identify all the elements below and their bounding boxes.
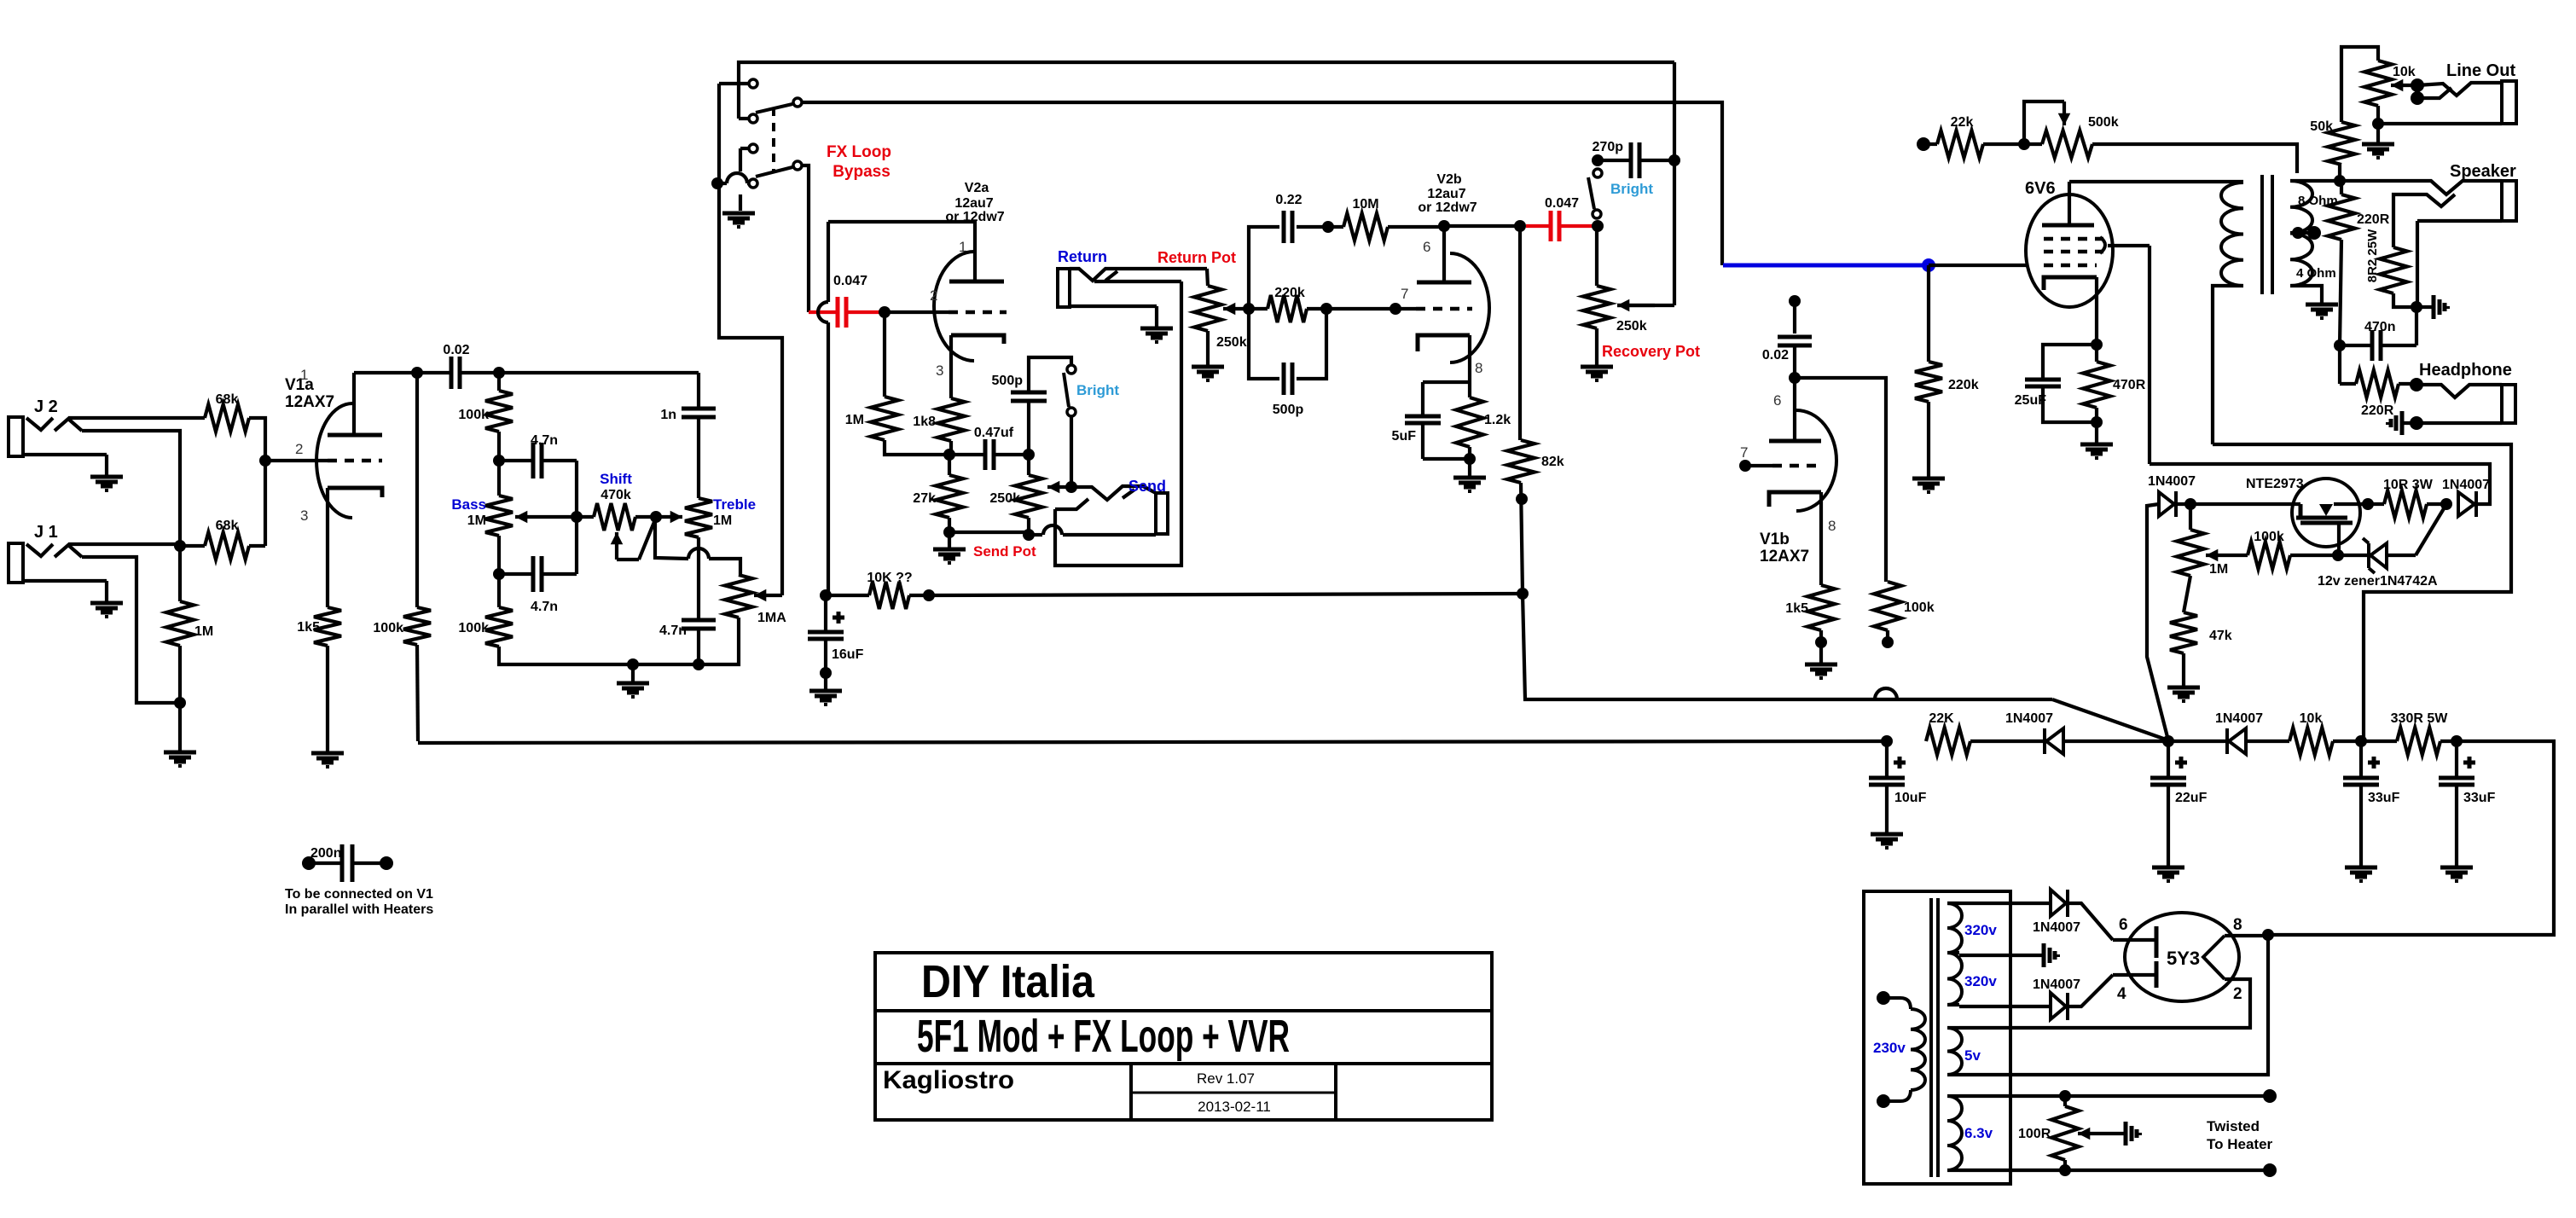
ground 33uF 1 bbox=[2345, 867, 2377, 881]
label 320v 1 bbox=[1964, 922, 1997, 938]
winding 6.3v bbox=[1947, 1096, 1962, 1170]
switch throw 1A bbox=[749, 79, 757, 88]
wire V1b plate feed bbox=[1793, 301, 1796, 333]
svg-text:10R 3W: 10R 3W bbox=[2383, 478, 2434, 492]
wire 27k leads bbox=[948, 455, 951, 532]
resistor 10M bbox=[1343, 213, 1388, 241]
capacitor 0.02 coupling bbox=[451, 357, 460, 389]
node V1b plate top bbox=[1789, 295, 1801, 307]
pin 1 label V1a bbox=[300, 367, 308, 383]
wire OT sec top bbox=[2290, 179, 2340, 183]
wire B+ to 5Y3 pin8 bbox=[2268, 741, 2554, 935]
title block box bbox=[875, 953, 1492, 1120]
node cathode V2a bbox=[943, 449, 955, 461]
PT core bbox=[1931, 898, 1938, 1177]
label pin 8 5Y3 bbox=[2233, 916, 2242, 934]
label 220k fx bbox=[1274, 286, 1305, 300]
wire diode to drain bbox=[2176, 502, 2190, 506]
wire bass leads bbox=[497, 461, 501, 574]
svg-text:320v: 320v bbox=[1964, 973, 1997, 989]
node send pot top bbox=[1023, 449, 1035, 461]
label recovery 250k bbox=[1616, 319, 1647, 333]
diode 1N4007 rect bottom bbox=[2051, 993, 2068, 1020]
resistor 220R headphone bbox=[2356, 370, 2399, 397]
label Line Out bbox=[2446, 61, 2515, 80]
resistor 1M input bbox=[166, 601, 194, 646]
capacitor 16uF bbox=[808, 632, 844, 639]
ground V1a cathode bbox=[311, 753, 344, 767]
ground 27k bbox=[933, 532, 966, 563]
label 68k lower bbox=[216, 519, 239, 533]
capacitor 33uF 2 bbox=[2439, 778, 2474, 785]
capacitor 0.47uf bbox=[985, 439, 994, 470]
winding 5v bbox=[1947, 1028, 1962, 1075]
switch throw 2D bbox=[749, 179, 757, 188]
ground speaker net bbox=[2416, 295, 2448, 319]
OT core bbox=[2262, 175, 2272, 294]
title Rev 1.07 bbox=[1197, 1070, 1255, 1087]
svg-text:220k: 220k bbox=[1274, 286, 1305, 300]
5Y3 filament bbox=[2203, 936, 2225, 979]
svg-text:1M: 1M bbox=[713, 513, 732, 528]
jack Headphone bbox=[2416, 385, 2515, 423]
node V1a plate bbox=[411, 367, 423, 379]
resistor 1.2k bbox=[1456, 397, 1483, 447]
capacitor 10uF bbox=[1869, 778, 1905, 785]
resistor 330R 5W bbox=[2397, 728, 2440, 755]
zener 12v 1N4742A bbox=[2363, 538, 2387, 573]
svg-text:Recovery Pot: Recovery Pot bbox=[1602, 343, 1700, 360]
wire grid 6V6 bbox=[1929, 264, 2028, 267]
svg-text:Bass: Bass bbox=[451, 496, 486, 513]
wire 220R hp leads bbox=[2340, 345, 2416, 384]
plus 33uF 2 bbox=[2463, 757, 2475, 768]
wire rail1 top bbox=[739, 62, 1674, 119]
capacitor 4.7n treble bbox=[682, 620, 716, 629]
recovery wiper arrow bbox=[1617, 299, 1655, 312]
svg-text:8: 8 bbox=[1828, 518, 1836, 534]
wire 220R speaker leads bbox=[2340, 181, 2343, 194]
svg-text:500k: 500k bbox=[2088, 115, 2119, 130]
resistor 100k VVR bbox=[2248, 542, 2290, 569]
ground 6V6 cathode bbox=[2080, 422, 2113, 458]
terminal 200n left bbox=[302, 856, 316, 870]
node lineout ring bbox=[2411, 91, 2424, 105]
node bright2 bottom bbox=[1592, 220, 1604, 232]
ground OT secondary bbox=[2306, 304, 2338, 318]
grid dashes V2b bbox=[1395, 307, 1472, 310]
cathode V2b bbox=[1418, 335, 1470, 382]
10k wiper arrow bbox=[2391, 79, 2417, 92]
grid dashes V1b bbox=[1745, 464, 1823, 467]
svg-text:Shift: Shift bbox=[600, 471, 632, 487]
wire 8R2 bottom bbox=[2393, 293, 2416, 307]
svg-text:FX Loop: FX Loop bbox=[827, 143, 891, 161]
svg-text:1N4007: 1N4007 bbox=[2033, 920, 2080, 935]
wire diode bottom to plate4 bbox=[2068, 975, 2113, 1006]
wire 82k to supply node bbox=[1521, 483, 1523, 594]
wire 1k5 to ground bbox=[326, 646, 329, 751]
label Headphone bbox=[2419, 361, 2512, 380]
cathode V1b bbox=[1769, 492, 1821, 585]
switch throw 2C bbox=[749, 144, 757, 153]
svg-text:0.02: 0.02 bbox=[443, 343, 469, 357]
label pin 6 5Y3 bbox=[2119, 916, 2128, 934]
label 12v zener1N4742A bbox=[2318, 574, 2438, 589]
capacitor 0.047 send (red) bbox=[809, 297, 885, 328]
wire heater bottom bbox=[1959, 1169, 2270, 1172]
label Recovery Pot bbox=[1602, 343, 1700, 360]
plus 33uF 1 bbox=[2368, 757, 2380, 768]
capacitor 270p bbox=[1631, 142, 1639, 178]
wire diode1 to 22uF node bbox=[2063, 739, 2168, 743]
resistor 1k5 V1a bbox=[314, 607, 341, 646]
title DIY Italia bbox=[921, 956, 1095, 1007]
svg-text:100k: 100k bbox=[458, 408, 489, 422]
label Bass bbox=[451, 496, 486, 513]
wire 1.2k leads bbox=[1468, 382, 1471, 459]
svg-text:Return: Return bbox=[1058, 248, 1107, 265]
svg-text:250k: 250k bbox=[1216, 335, 1247, 350]
svg-text:or 12dw7: or 12dw7 bbox=[945, 210, 1004, 224]
wire 50k bottom bbox=[2338, 165, 2341, 181]
svg-text:320v: 320v bbox=[1964, 922, 1997, 938]
label 33uF 2 bbox=[2463, 791, 2496, 805]
node 33uF 1 bbox=[2355, 735, 2367, 747]
100R wiper arrow bbox=[2078, 1128, 2126, 1140]
label 22K psu bbox=[1929, 711, 1954, 726]
node V2b grid bbox=[1390, 303, 1401, 315]
node 82k mid bbox=[1516, 493, 1528, 505]
svg-text:V2b: V2b bbox=[1436, 172, 1462, 187]
bass wiper arrow bbox=[515, 511, 577, 524]
resistor 22K psu bbox=[1926, 728, 1970, 755]
wire plate to 82k node bbox=[1444, 224, 1520, 228]
ground 22uF bbox=[2152, 867, 2184, 881]
resistor 100k V1b bbox=[1874, 582, 1901, 630]
svg-text:470n: 470n bbox=[2364, 320, 2395, 334]
wire V1b out right bbox=[1795, 378, 1886, 582]
svg-text:6: 6 bbox=[2119, 916, 2128, 934]
wire J2 lower contact bbox=[82, 431, 180, 546]
node 470n left bbox=[2334, 339, 2346, 351]
mosfet NTE2973 bbox=[2292, 478, 2368, 556]
jack Speaker bbox=[2340, 181, 2516, 221]
wire send gnd row bbox=[949, 531, 1029, 534]
wire 230v leads bbox=[1883, 998, 1911, 1101]
pot Send 250k bbox=[1015, 475, 1042, 518]
wire send pot leads bbox=[1027, 455, 1030, 535]
label 0.22 bbox=[1275, 193, 1302, 207]
wire speaker sleeve down bbox=[2416, 221, 2419, 307]
svg-text:1k8: 1k8 bbox=[913, 415, 936, 429]
svg-text:230v: 230v bbox=[1873, 1040, 1906, 1056]
node tone top bbox=[493, 367, 505, 379]
switch bright1 bottom bbox=[1067, 408, 1076, 416]
jack J2 label bbox=[34, 397, 58, 416]
wire diag to B+ bbox=[2052, 699, 2168, 740]
diode 1N4007 vvr left bbox=[2159, 491, 2176, 517]
wire 6V6 plate to OT bbox=[2069, 180, 2243, 183]
ground tone stack bbox=[617, 664, 649, 697]
label Return bbox=[1058, 248, 1107, 265]
node 5Y3 pin8 bbox=[2262, 929, 2274, 941]
svg-text:220R: 220R bbox=[2361, 403, 2394, 418]
label 5uF bbox=[1392, 429, 1417, 444]
label V1b bbox=[1760, 531, 1790, 548]
wire recovery top bbox=[1595, 226, 1598, 286]
svg-text:1.2k: 1.2k bbox=[1484, 413, 1511, 427]
svg-text:In parallel with Heaters: In parallel with Heaters bbox=[285, 902, 433, 917]
label 1N4007 vvr right bbox=[2442, 478, 2490, 492]
wire 1M leads bbox=[178, 546, 182, 703]
plate 6V6 bbox=[2042, 182, 2094, 225]
label 330R 5W bbox=[2391, 711, 2449, 726]
label Send bbox=[1128, 478, 1166, 495]
svg-text:3: 3 bbox=[300, 507, 308, 524]
lever switch 2 bbox=[756, 167, 792, 177]
svg-text:500p: 500p bbox=[1273, 403, 1304, 417]
wire 500p right bbox=[1297, 309, 1326, 379]
pin 6 label V1b bbox=[1773, 392, 1781, 409]
node bass bottom bbox=[493, 568, 505, 580]
wire 10k to 33uF node bbox=[2333, 739, 2361, 743]
wire recovery gnd bbox=[1595, 328, 1598, 365]
svg-text:or 12dw7: or 12dw7 bbox=[1418, 200, 1477, 215]
label 500p fx bbox=[1273, 403, 1304, 417]
wire 100k to bus bbox=[417, 645, 418, 741]
pot 1MA bbox=[725, 575, 752, 618]
wire 22k to 500k bbox=[1923, 142, 2042, 146]
wire pin8 to 5v bbox=[1959, 935, 2268, 1075]
node J1 tip bbox=[174, 540, 186, 552]
wire diode2 to 10k bbox=[2246, 739, 2289, 743]
svg-text:68k: 68k bbox=[216, 519, 239, 533]
svg-text:220k: 220k bbox=[1948, 378, 1979, 392]
wire 220k to grid node bbox=[1326, 307, 1395, 310]
svg-text:1k5: 1k5 bbox=[297, 620, 320, 635]
svg-text:5Y3: 5Y3 bbox=[2167, 948, 2200, 969]
svg-text:68k: 68k bbox=[216, 392, 239, 407]
svg-text:Bypass: Bypass bbox=[833, 163, 891, 181]
label Speaker bbox=[2450, 162, 2516, 181]
wire 270p to wiper bbox=[1617, 160, 1674, 305]
pot Treble 1M bbox=[685, 498, 712, 537]
svg-text:8R2 25W: 8R2 25W bbox=[2365, 229, 2380, 282]
node 10k gnd bbox=[2372, 118, 2384, 130]
resistor 10k psu bbox=[2289, 728, 2333, 755]
wire V1b cap to node bbox=[1793, 345, 1796, 378]
stub throw C bbox=[740, 148, 748, 211]
label 270p bbox=[1593, 140, 1624, 154]
svg-text:6.3v: 6.3v bbox=[1964, 1125, 1993, 1141]
node supply mid bbox=[1517, 588, 1529, 600]
label 82k bbox=[1541, 455, 1564, 469]
svg-text:5uF: 5uF bbox=[1392, 429, 1417, 444]
svg-text:270p: 270p bbox=[1593, 140, 1624, 154]
node 470R bottom bbox=[2091, 416, 2103, 428]
wire OT loop right bbox=[2213, 444, 2511, 741]
wire 33uF2 leads bbox=[2455, 741, 2458, 866]
label 22uF bbox=[2175, 791, 2208, 805]
node 220k right bbox=[1320, 303, 1332, 315]
wire 10uF leads bbox=[1885, 741, 1888, 832]
node speaker line 50k bbox=[2334, 175, 2346, 187]
label 6V6 bbox=[2025, 179, 2056, 198]
node 82k top bbox=[1514, 220, 1526, 232]
terminal 230v top bbox=[1877, 991, 1890, 1005]
wire 10M leads bbox=[1328, 225, 1444, 229]
wire 320v taps bbox=[1947, 903, 1959, 1005]
wire 500p to switch bbox=[1029, 357, 1071, 455]
label 16uF bbox=[832, 647, 864, 662]
svg-text:100k: 100k bbox=[458, 621, 489, 635]
svg-text:1: 1 bbox=[300, 367, 308, 383]
svg-text:100k: 100k bbox=[373, 621, 403, 635]
wire 33uF1 leads bbox=[2359, 741, 2363, 866]
jack J2 bbox=[9, 417, 107, 456]
label 100k plate V1a bbox=[373, 621, 403, 635]
label send 250k bbox=[989, 491, 1020, 506]
wire 5Y3 pin2 bbox=[1959, 979, 2250, 1028]
resistor 22k NFB bbox=[1937, 130, 1983, 158]
wire main B+ bus bbox=[418, 741, 1887, 743]
wire send ring loop bbox=[1055, 281, 1181, 565]
wire cap to tone node bbox=[417, 371, 499, 374]
capacitor 200n bbox=[309, 844, 386, 882]
svg-text:Bright: Bright bbox=[1076, 382, 1119, 398]
node lineout tip bbox=[2411, 78, 2424, 92]
capacitor 4.7n lower bbox=[533, 556, 542, 592]
wire OT sec bottom bbox=[2290, 286, 2322, 303]
label 1M VVR bbox=[2209, 562, 2228, 577]
label 1N4007 rect bottom bbox=[2033, 977, 2080, 992]
label 4 Ohm bbox=[2296, 266, 2336, 281]
wire 47k gnd bbox=[2182, 653, 2185, 686]
wire return sleeve gnd bbox=[1155, 306, 1158, 327]
wire 100k lower leads bbox=[499, 574, 633, 664]
label 33uF 1 bbox=[2368, 791, 2400, 805]
label V1a 12AX7 bbox=[285, 393, 334, 411]
node 500k left bbox=[2018, 138, 2030, 150]
svg-text:7: 7 bbox=[1740, 444, 1748, 461]
pot Recovery 250k bbox=[1583, 286, 1610, 328]
winding 320v 1 bbox=[1947, 903, 1962, 953]
wire drain to mosfet bbox=[2190, 502, 2300, 506]
terminal 230v bottom bbox=[1877, 1094, 1890, 1108]
switch throw 1B bbox=[749, 114, 757, 123]
primary 230v winding bbox=[1911, 1009, 1925, 1090]
label 4.7n upper bbox=[531, 433, 558, 448]
wire 68k to grid node bbox=[249, 418, 265, 546]
OT sec tap bbox=[2290, 226, 2321, 240]
label Bass 1M bbox=[467, 513, 486, 528]
wire supply drop bbox=[1523, 594, 2052, 699]
dashed link DPDT bbox=[772, 107, 775, 171]
svg-text:Treble: Treble bbox=[713, 496, 756, 513]
wire 1MA bottom bbox=[699, 575, 740, 664]
label 0.02 V1b bbox=[1762, 348, 1789, 362]
svg-text:22k: 22k bbox=[1951, 115, 1974, 130]
label 100k lower bbox=[458, 621, 489, 635]
title 2013-02-11 bbox=[1198, 1099, 1271, 1115]
capacitor 1n bbox=[682, 409, 716, 417]
label 0.47uf bbox=[974, 426, 1014, 440]
label 5Y3 bbox=[2167, 948, 2200, 969]
pot 500k bbox=[2042, 130, 2092, 158]
wire 22K to diode bbox=[1970, 739, 2045, 743]
node hp tip bbox=[2410, 378, 2423, 391]
wire 0.22 to node bbox=[1297, 225, 1328, 229]
svg-text:Send: Send bbox=[1128, 478, 1166, 495]
grid dashes V2a bbox=[949, 310, 1007, 315]
wire treble top bbox=[697, 417, 700, 498]
resistor 220R speaker bbox=[2328, 194, 2355, 240]
resistor 47k bbox=[2170, 612, 2197, 653]
title block row line 2 bbox=[875, 1062, 1492, 1065]
svg-text:10k: 10k bbox=[2393, 65, 2416, 79]
wire 10R leads bbox=[2368, 502, 2446, 506]
jack Line Out bbox=[2378, 81, 2516, 124]
ground 10uF bbox=[1871, 834, 1903, 848]
diode 1N4007 psu2 bbox=[2227, 728, 2246, 754]
wire zener leads bbox=[2338, 554, 2416, 557]
pin 2 label V2a bbox=[930, 287, 937, 304]
svg-text:330R 5W: 330R 5W bbox=[2391, 711, 2449, 726]
resistor 68k (lower) bbox=[205, 532, 249, 560]
pentode 6V6 envelope bbox=[2026, 194, 2113, 307]
node tone gnd 1 bbox=[627, 658, 639, 670]
wire 1M V2a leads bbox=[885, 312, 949, 455]
title 5F1 Mod + FX Loop + VVR bbox=[917, 1011, 1290, 1062]
svg-text:2: 2 bbox=[295, 441, 303, 457]
wire send pot gnd hop bbox=[1029, 525, 1156, 535]
label Bypass bbox=[833, 163, 891, 181]
pot Shift 470k bbox=[594, 503, 635, 531]
hop red over riser bbox=[818, 302, 828, 322]
plus 22uF bbox=[2175, 757, 2187, 768]
wire shift to treble wiper bbox=[635, 515, 656, 519]
pin 8 label V2b bbox=[1475, 360, 1482, 376]
node 100R top bbox=[2059, 1090, 2071, 1102]
title block vline 2 bbox=[1334, 1064, 1337, 1120]
wire 100k V1b bottom bbox=[1886, 630, 1889, 642]
svg-text:6V6: 6V6 bbox=[2025, 179, 2056, 198]
svg-text:0.02: 0.02 bbox=[1762, 348, 1789, 362]
ground recovery bbox=[1581, 367, 1613, 380]
wire hop to throw D bbox=[717, 173, 748, 183]
svg-text:Kagliostro: Kagliostro bbox=[883, 1066, 1014, 1094]
svg-text:0.047: 0.047 bbox=[833, 274, 867, 288]
cathode V1a bbox=[328, 488, 382, 607]
svg-text:22K: 22K bbox=[1929, 711, 1954, 726]
label return 250k bbox=[1216, 335, 1247, 350]
ground line out bbox=[2362, 124, 2394, 158]
resistor 100k lower bbox=[485, 607, 513, 647]
svg-text:1N4007: 1N4007 bbox=[2148, 474, 2196, 489]
plate V2a bbox=[949, 280, 1004, 284]
wire 100R leads bbox=[2063, 1096, 2067, 1170]
label 27k bbox=[913, 491, 936, 506]
wire gnd to 4.7n treble bbox=[633, 663, 699, 666]
OT secondary winding bbox=[2290, 181, 2312, 286]
resistor 100k slope upper bbox=[485, 391, 513, 432]
label 500k bbox=[2088, 115, 2119, 130]
svg-text:Headphone: Headphone bbox=[2419, 361, 2512, 380]
stub throw B bbox=[739, 117, 748, 120]
resistor 50k bbox=[2328, 122, 2355, 165]
label 0.047 send bbox=[833, 274, 867, 288]
